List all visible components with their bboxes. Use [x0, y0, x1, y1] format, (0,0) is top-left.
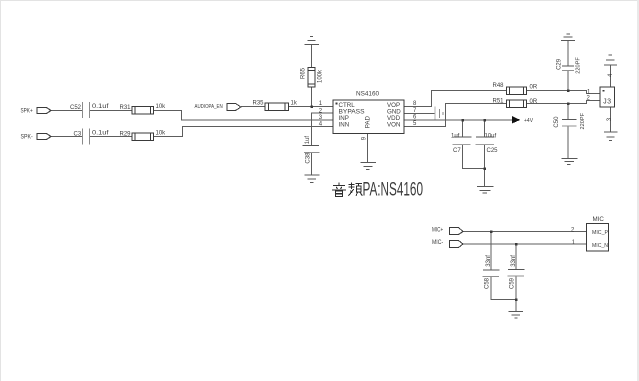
capacitor C3 plates	[82, 129, 84, 145]
sheet edge top	[0, 0, 639, 1]
port MIC+	[450, 228, 464, 235]
svg-text:AUDIOPA_EN: AUDIOPA_EN	[195, 104, 223, 110]
svg-text:0R: 0R	[530, 85, 538, 91]
svg-text:10k: 10k	[156, 104, 167, 110]
svg-text:C25: C25	[487, 148, 499, 154]
wire C52 to R31	[90, 110, 132, 112]
wire R51 to J3 pin2	[527, 101, 601, 104]
svg-text:C52: C52	[70, 105, 82, 111]
hanzi 频 strokes	[348, 182, 362, 196]
svg-text:R65: R65	[301, 67, 307, 79]
svg-text:1uf: 1uf	[305, 136, 311, 145]
svg-text:C50: C50	[554, 116, 560, 128]
wire R35 to IC pin1 CTRL	[289, 106, 333, 108]
wire C3 to R29	[90, 136, 132, 138]
capacitor at IC pin7 polarity tick	[442, 112, 444, 115]
svg-text:C38: C38	[306, 152, 312, 164]
svg-text:0R: 0R	[530, 99, 538, 105]
svg-text:C29: C29	[556, 58, 562, 70]
wire IC pin7 GND stub	[404, 113, 435, 115]
ground below C50	[562, 158, 578, 160]
wire J3 pin4 to ground	[610, 66, 612, 88]
svg-text:MIC_N: MIC_N	[592, 243, 608, 249]
svg-text:33nf: 33nf	[511, 255, 517, 267]
svg-text:C59: C59	[510, 277, 516, 289]
svg-text:MIC_P: MIC_P	[592, 230, 608, 236]
IC pin1 orientation dot	[335, 102, 337, 104]
svg-text:INN: INN	[339, 122, 350, 129]
ground above J3 pin4 (inverted)	[609, 54, 613, 56]
wire R65 top to ground	[311, 45, 313, 68]
port MIC-	[450, 241, 464, 248]
svg-text:100k: 100k	[318, 69, 324, 83]
svg-text:0.1uf: 0.1uf	[92, 104, 109, 110]
ground below C25	[477, 186, 494, 188]
wire C25 bottom to ground	[484, 145, 486, 187]
svg-text:SPK+: SPK+	[21, 109, 34, 115]
junction VDD/C7	[461, 119, 464, 122]
svg-text:NS4160: NS4160	[356, 90, 380, 97]
port SPK-	[37, 134, 51, 140]
resistor R29 body	[132, 133, 154, 141]
svg-text:1k: 1k	[291, 101, 298, 107]
svg-text:R29: R29	[120, 131, 132, 137]
resistor R35 body	[265, 103, 289, 111]
wire C38 to ground	[311, 153, 313, 176]
capacitor C29 plates	[562, 65, 574, 67]
junction MIC-/C59	[515, 243, 518, 246]
svg-text:1uf: 1uf	[451, 133, 460, 139]
wire R31 to IC pin3 INP	[154, 111, 334, 121]
wire C50 bottom to ground	[567, 126, 569, 159]
wire R48 to J3 pin1	[527, 91, 601, 94]
wire C50 top from R51 net	[567, 104, 569, 120]
wire MIC+ net to C58	[490, 232, 492, 271]
svg-text:MIC-: MIC-	[432, 240, 443, 246]
svg-text:J3: J3	[603, 99, 611, 107]
ground below J3 pin3	[604, 131, 618, 133]
junction C58/C59 bottom	[515, 298, 518, 301]
svg-text:220PF: 220PF	[580, 112, 586, 129]
svg-text:PAD: PAD	[365, 116, 372, 129]
wire MIC- net to C59	[515, 244, 517, 270]
capacitor C52 plates	[82, 102, 84, 118]
wire C29 bottom to R48 net	[567, 71, 569, 91]
sheet edge right	[637, 0, 639, 381]
wire SPK- to C3	[51, 136, 82, 138]
junction MIC+/C58	[490, 230, 493, 233]
capacitor C25 plates	[476, 136, 495, 138]
microphone MIC box	[587, 224, 609, 252]
svg-text:10k: 10k	[156, 130, 167, 136]
capacitor C58 plates	[483, 269, 500, 271]
junction VDD/C25	[483, 119, 486, 122]
junction R51/C50	[567, 102, 570, 105]
wire SPK+ to C52	[51, 110, 82, 112]
svg-text:10uf: 10uf	[485, 133, 497, 139]
junction R48/C29	[567, 89, 570, 92]
wire R65 bottom to pin1 net	[311, 87, 313, 107]
ground above R65 (inverted)	[310, 36, 313, 38]
capacitor at IC pin7 plate B	[439, 109, 441, 118]
hanzi 音 strokes	[332, 182, 346, 196]
capacitor C38 plates	[303, 145, 320, 147]
ground below IC PAD	[361, 162, 377, 164]
title text: 音频PA:NS4160	[332, 179, 423, 200]
wire MIC- to MIC_N pin1	[463, 243, 587, 245]
sheet edge left	[0, 0, 1, 381]
svg-text:C7: C7	[453, 148, 461, 154]
wire VDD to C7	[462, 120, 464, 137]
capacitor C50 plates	[562, 119, 577, 121]
svg-text:R31: R31	[120, 105, 132, 111]
power flag +4V arrow	[513, 117, 520, 123]
svg-text:MIC: MIC	[593, 216, 605, 223]
port SPK+	[37, 108, 51, 114]
wire IC pin2 BYPASS to C38	[312, 113, 334, 146]
svg-text:0.1uf: 0.1uf	[92, 130, 109, 136]
wire C59 bottom to ground	[515, 276, 517, 312]
junction C7/C25 bottom	[483, 167, 486, 170]
ground below C59	[509, 311, 524, 313]
resistor R51 body	[507, 100, 527, 108]
svg-text:33nf: 33nf	[486, 255, 492, 267]
wire C58 bottom	[491, 277, 516, 300]
wire MIC+ to MIC_P pin2	[463, 231, 587, 233]
connector J3 box	[600, 87, 615, 107]
svg-text:MIC+: MIC+	[432, 227, 444, 233]
capacitor at IC pin7 plate A	[434, 107, 436, 120]
svg-text:C58: C58	[485, 277, 491, 289]
wire IC pin9 PAD to ground	[367, 134, 369, 163]
resistor R65 body (vertical)	[308, 68, 315, 88]
svg-text:PA:NS4160: PA:NS4160	[363, 179, 424, 200]
svg-text:R48: R48	[493, 83, 505, 89]
J3 orientation dot	[603, 90, 605, 92]
port AUDIOPA_EN	[227, 104, 241, 111]
wire J3 pin3 to ground	[610, 107, 612, 132]
resistor R31 body	[132, 107, 154, 115]
wire VDD to C25	[484, 120, 486, 137]
wire IC pin5 VON to R51	[404, 104, 507, 127]
junction pin1/R65	[310, 105, 313, 108]
svg-text:SPK-: SPK-	[21, 135, 33, 141]
svg-text:C3: C3	[74, 131, 82, 137]
svg-text:VON: VON	[387, 122, 400, 129]
svg-text:220PF: 220PF	[575, 57, 581, 74]
svg-text:R35: R35	[253, 101, 265, 107]
wire C7 bottom	[463, 145, 485, 169]
wire IC pin6 VDD to +4V	[404, 119, 513, 121]
wire C29 top to ground	[567, 41, 569, 67]
resistor R48 body	[507, 87, 527, 95]
ground below C38	[304, 174, 319, 176]
wire R29 to IC pin4 INN	[154, 127, 334, 137]
ground above C29 (inverted)	[567, 33, 571, 35]
capacitor C7 plates	[454, 136, 472, 138]
wire AUDIOPA_EN to R35	[241, 106, 265, 108]
svg-text:R51: R51	[493, 98, 505, 104]
capacitor C59 plates	[508, 269, 525, 271]
wire IC pin8 VOP to R48	[404, 91, 507, 107]
svg-text:+4V: +4V	[524, 118, 534, 124]
op-amp IC U1 NS4160 box	[333, 100, 404, 133]
